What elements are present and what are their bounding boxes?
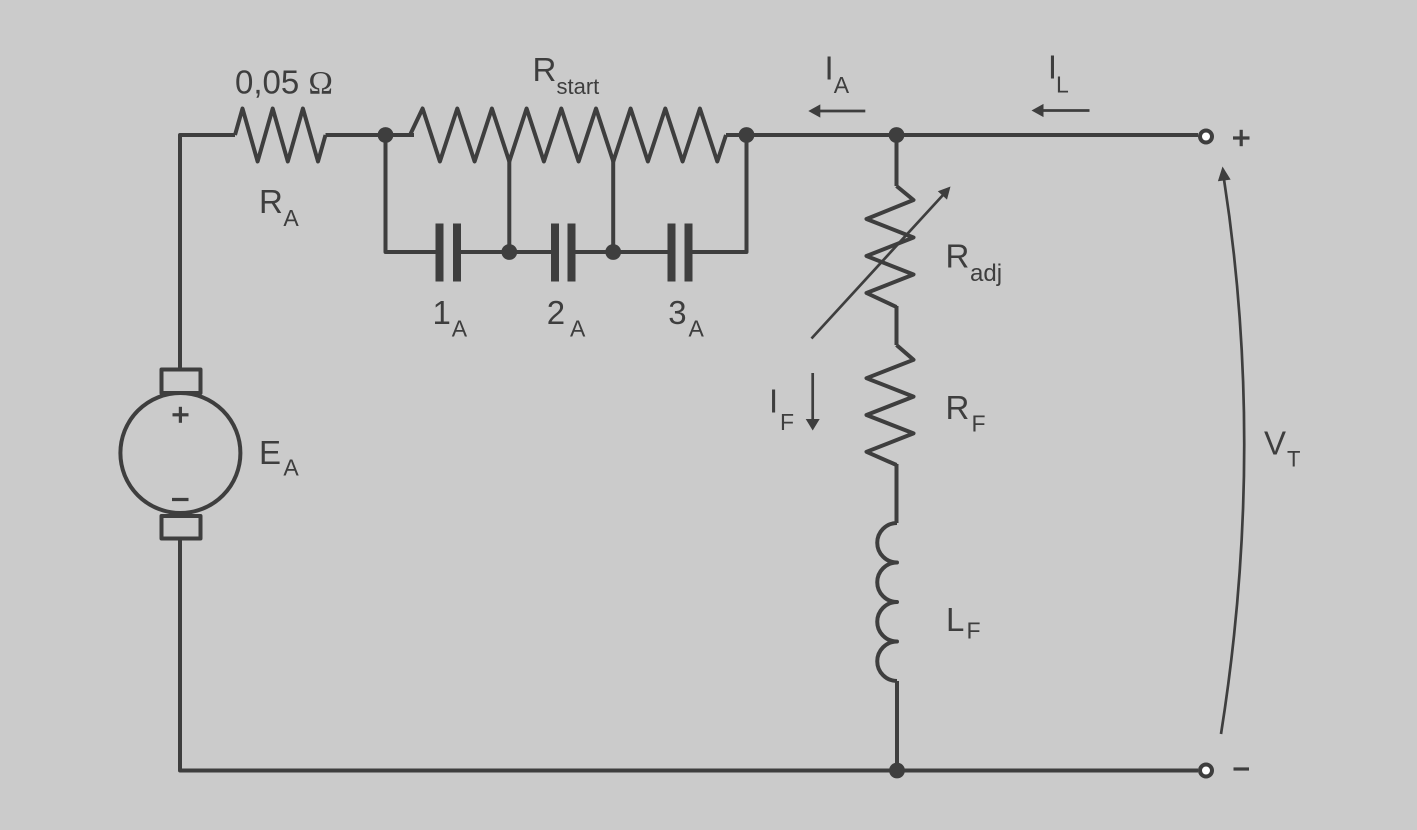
arrow arc V_T [1218,167,1244,735]
node 1 contact row [501,244,517,260]
svg-text:L: L [1056,71,1069,97]
svg-text:2: 2 [547,294,565,331]
wire left vertical + top-left horizontal [180,135,235,371]
wire R_adj to R_F [895,306,899,345]
svg-text:F: F [780,409,794,435]
svg-text:A: A [570,316,586,342]
svg-text:0,05 Ω: 0,05 Ω [235,64,333,102]
terminal + [1200,131,1212,143]
svg-text:A: A [689,316,705,342]
motor brush block top [162,370,201,394]
svg-text:R: R [259,183,283,220]
minus sign at terminal [1234,767,1250,770]
contactor 1A [436,224,462,282]
svg-text:V: V [1264,425,1286,462]
minus sign inside motor [172,498,189,501]
resistor R_start [410,109,726,162]
svg-text:R: R [946,238,970,275]
svg-text:R: R [946,389,970,426]
node C [889,127,905,143]
node bottom bus [889,763,905,779]
wire between R_A and R_start [326,133,415,137]
svg-text:1: 1 [433,294,451,331]
arrow I_L [1032,104,1090,117]
node 2 contact row [605,244,621,260]
wire L_F to bottom bus [895,681,899,771]
node B [739,127,755,143]
resistor R_F [867,345,914,465]
svg-text:start: start [557,74,600,99]
arrow through R_adj [812,187,951,339]
wire loop right vertical [693,135,747,252]
wire tap 1A from R_start [507,160,511,252]
wire motor bottom + bottom bus [180,537,1198,771]
svg-text:F: F [967,618,981,644]
resistor R_adj [867,186,914,307]
inductor L_F [877,523,897,681]
wire node C down to R_adj [895,135,899,186]
wire contact1 to node1 to contact2 [461,250,551,254]
resistor R_A [235,109,326,162]
motor brush block bottom [162,516,201,539]
svg-text:A: A [452,316,468,342]
plus sign at terminal [1233,130,1250,146]
node A [378,127,394,143]
svg-text:A: A [283,455,299,481]
wire R_start to + terminal [726,133,1198,137]
contactor 3A [668,224,693,282]
svg-text:A: A [834,72,850,98]
svg-text:F: F [972,411,986,437]
plus sign inside motor [173,407,189,423]
svg-text:I: I [825,50,834,87]
svg-text:L: L [946,601,964,638]
wire loop left vertical [386,135,436,252]
arrow I_A [808,104,865,117]
terminal - [1200,765,1212,777]
svg-text:I: I [769,382,778,419]
wire R_F to L_F [895,464,899,523]
svg-text:R: R [533,51,557,88]
svg-text:A: A [283,205,299,231]
contactor 2A [551,224,576,282]
wire tap 2A from R_start [611,160,615,252]
machine E_A circle [120,393,240,513]
wire contact2 to node2 to contact3 [576,250,668,254]
svg-text:3: 3 [668,294,686,331]
arrow I_F [806,373,820,431]
svg-text:E: E [259,434,281,471]
svg-text:adj: adj [970,260,1002,287]
svg-text:T: T [1287,447,1300,472]
